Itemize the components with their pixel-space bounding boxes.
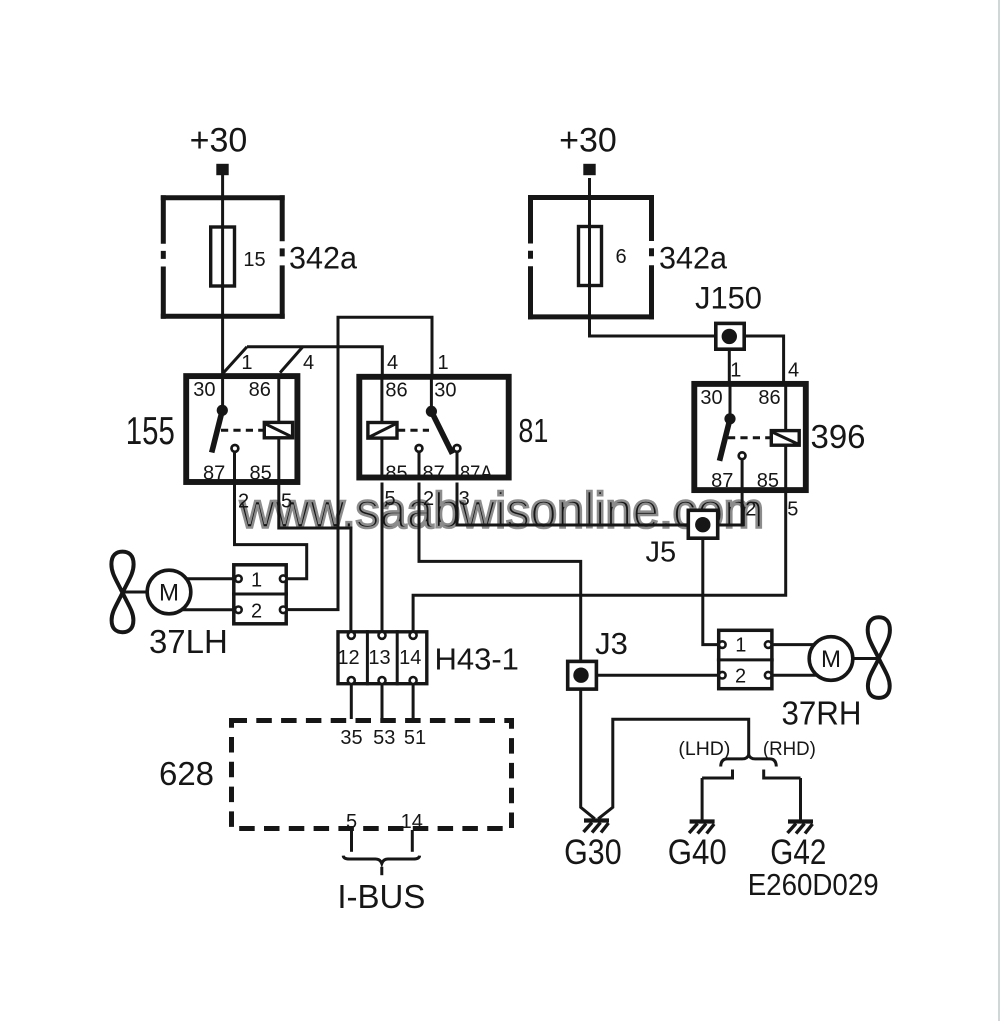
fan blades right (868, 617, 890, 698)
wire +30 right terminal through fuse to J150 (590, 178, 715, 336)
relay155 switch common wire (221, 376, 224, 410)
svg-text:H43-1: H43-1 (434, 642, 518, 677)
svg-text:85: 85 (757, 470, 779, 492)
wire H43-1 pin53 to module 628 (381, 685, 384, 719)
svg-text:87: 87 (711, 470, 733, 492)
connector J3 (568, 626, 628, 689)
svg-text:J3: J3 (595, 626, 628, 661)
svg-text:4: 4 (303, 352, 314, 374)
terminal +30 left (216, 164, 228, 175)
svg-text:30: 30 (193, 379, 215, 401)
svg-text:14: 14 (399, 647, 421, 669)
wire motor M left to connector row1 (169, 577, 233, 580)
wire ground link G30 to LHD/RHD brace (598, 719, 749, 819)
relay81 contact 87A circle (454, 445, 461, 452)
wire G42 down (799, 778, 802, 820)
wire fan 37LH shaft (123, 591, 151, 594)
relay396 dashed actuator line (728, 436, 770, 439)
fuse 6 symbol (579, 227, 602, 286)
wire J3 to fan 37RH row2 (598, 674, 718, 677)
wire J150 to relay396 pin1 (728, 350, 731, 382)
wire J150 to relay396 pin4 (746, 336, 784, 382)
relay81 switch pivot dot (426, 406, 437, 417)
relay155 dashed actuator line (221, 429, 263, 432)
wire relay396 pin5 to H43-1 pin14 (413, 492, 786, 633)
wire relay396 pin2/87 to J5 (719, 459, 743, 525)
wire H43-1 pin51 to module 628 (412, 685, 415, 719)
ground G40 (668, 822, 727, 873)
svg-text:87: 87 (422, 462, 444, 484)
relay81 coil feed wire 86-85 (380, 377, 383, 476)
svg-text:E260D029: E260D029 (748, 867, 879, 902)
wire motor M left to connector row2 (169, 608, 233, 611)
motor M circle right (809, 637, 853, 681)
relay155 switch arm (212, 410, 223, 452)
svg-text:87A: 87A (460, 462, 493, 484)
fan motor 37LH (111, 552, 227, 660)
relay396 switch arm (720, 419, 731, 461)
wire fan 37RH shaft (852, 657, 879, 660)
terminal +30 right (583, 164, 595, 175)
svg-text:1: 1 (251, 569, 262, 591)
connector H43-1 (337, 630, 519, 685)
svg-text:5: 5 (787, 498, 798, 520)
wire relay155 pin5 to H43-1 pin12 (279, 484, 351, 633)
relay81 wire 87A to pin3 (456, 453, 459, 476)
svg-text:396: 396 (810, 418, 865, 455)
control module 628 (dashed box) (159, 721, 512, 833)
wire J3 down to ground G30 (581, 690, 595, 819)
fuse box 342a left (161, 195, 285, 319)
svg-text:1: 1 (437, 352, 448, 374)
svg-text:86: 86 (758, 387, 780, 409)
connector 37RH pins 1,2 (717, 630, 774, 688)
svg-text:2: 2 (423, 488, 434, 510)
relay81 coil (368, 423, 397, 439)
svg-text:G40: G40 (668, 833, 727, 872)
fuse box 342a right (528, 195, 654, 319)
svg-text:87: 87 (203, 462, 225, 484)
page right edge line (998, 0, 1000, 1021)
relay396 coil (771, 431, 799, 446)
svg-text:5: 5 (281, 491, 292, 513)
svg-text:37RH: 37RH (782, 695, 862, 732)
relay 81 (359, 352, 548, 510)
relay396 switch pivot dot (724, 413, 735, 424)
fan motor 37RH (782, 617, 890, 731)
svg-text:www.saabwisonline.com: www.saabwisonline.com (239, 483, 764, 539)
relay81 dashed actuator line (398, 429, 429, 432)
svg-text:2: 2 (251, 601, 262, 623)
svg-text:3: 3 (459, 488, 470, 510)
wire G42 branch (764, 770, 801, 779)
svg-text:86: 86 (249, 379, 271, 401)
svg-text:2: 2 (735, 665, 746, 687)
wire relay81 pin3 to J5 (457, 483, 688, 526)
wire relay81 pin5 to H43-1 pin13 (381, 483, 384, 634)
svg-text:14: 14 (401, 811, 423, 833)
svg-text:2: 2 (238, 491, 249, 513)
connector J5 (645, 510, 717, 568)
I-BUS underbrace (337, 856, 425, 915)
relay81 switch common wire (430, 377, 433, 411)
wire G40 down (701, 778, 704, 820)
fan blades left (111, 552, 133, 633)
svg-text:81: 81 (518, 412, 548, 449)
relay155 wire 87 to pin2 (233, 453, 236, 482)
svg-text:13: 13 (368, 647, 390, 669)
svg-text:30: 30 (434, 379, 456, 401)
svg-text:35: 35 (340, 727, 362, 749)
wire relay155 pin2 to 37LH row1 (235, 484, 307, 579)
wire relay81 pin1 up-left-down to fan 37LH row2 (288, 317, 432, 609)
svg-text:15: 15 (243, 249, 265, 271)
svg-text:12: 12 (337, 647, 359, 669)
relay155 switch pivot dot (217, 405, 228, 416)
wire J5 down to fan 37RH row1 (703, 539, 718, 645)
wire H43-1 pin35 to module 628 (350, 685, 353, 719)
relay396 switch common wire (729, 384, 732, 418)
svg-text:J5: J5 (645, 537, 676, 569)
wire +30 left terminal to relay 155 pin 1 (through fuse box) (221, 175, 224, 374)
relay81 contact 87 circle (416, 445, 423, 452)
svg-text:342a: 342a (289, 240, 357, 276)
relay396 contact 87 circle (739, 452, 746, 459)
svg-text:5: 5 (346, 811, 357, 833)
relay155 contact 87 circle (232, 445, 239, 452)
wire relay155 pin4 slash (280, 347, 303, 373)
LHD/RHD alternative brace (678, 739, 816, 767)
fuse 15 symbol (211, 227, 235, 286)
svg-text:85: 85 (249, 462, 271, 484)
svg-text:J150: J150 (695, 280, 762, 316)
wire module 628 pin5 stub (350, 830, 353, 852)
svg-text:(LHD): (LHD) (678, 739, 730, 760)
wire relay155 pin1 slash (224, 347, 248, 373)
wire module 628 pin14 stub (411, 830, 414, 852)
relay 396 (694, 360, 865, 521)
wire relay81 pin2 to J3 (419, 483, 581, 663)
svg-text:155: 155 (126, 410, 175, 453)
svg-text:37LH: 37LH (149, 623, 228, 660)
ground G30 (564, 821, 622, 873)
svg-text:M: M (821, 646, 841, 673)
svg-text:86: 86 (385, 379, 407, 401)
svg-text:6: 6 (615, 246, 626, 268)
svg-text:I-BUS: I-BUS (337, 878, 425, 915)
svg-text:53: 53 (373, 727, 395, 749)
wire motor M right to connector row2 (773, 674, 831, 677)
svg-text:5: 5 (384, 488, 395, 510)
wire G40 branch (702, 770, 732, 779)
svg-text:M: M (159, 580, 179, 607)
svg-text:(RHD): (RHD) (763, 739, 816, 760)
relay155 coil (264, 422, 292, 437)
relay81 wire 87 to pin2 (418, 453, 421, 476)
svg-text:+30: +30 (559, 122, 617, 160)
svg-text:51: 51 (404, 727, 426, 749)
svg-text:628: 628 (159, 755, 214, 792)
svg-text:1: 1 (730, 360, 741, 382)
svg-text:342a: 342a (659, 240, 727, 276)
wire motor M right to connector row1 (773, 643, 831, 646)
svg-text:4: 4 (387, 352, 398, 374)
relay 155 (126, 352, 314, 513)
motor M circle left (147, 570, 191, 614)
connector J150 (695, 280, 762, 350)
svg-text:4: 4 (788, 360, 799, 382)
connector 37LH pins 1,2 (232, 565, 288, 624)
svg-text:2: 2 (745, 498, 756, 520)
svg-text:1: 1 (735, 635, 746, 657)
relay155 coil feed wire 86-85 (277, 376, 280, 482)
relay396 coil feed wire 86-85 (784, 384, 787, 490)
relay81 switch arm (431, 411, 452, 453)
ground G42 (770, 822, 826, 873)
svg-text:G30: G30 (564, 833, 622, 872)
svg-text:85: 85 (385, 462, 407, 484)
svg-text:30: 30 (700, 387, 722, 409)
wire net 30-feed horizontal to relay81 pin 4 (247, 347, 382, 377)
svg-text:1: 1 (241, 352, 252, 374)
svg-text:+30: +30 (190, 122, 248, 160)
